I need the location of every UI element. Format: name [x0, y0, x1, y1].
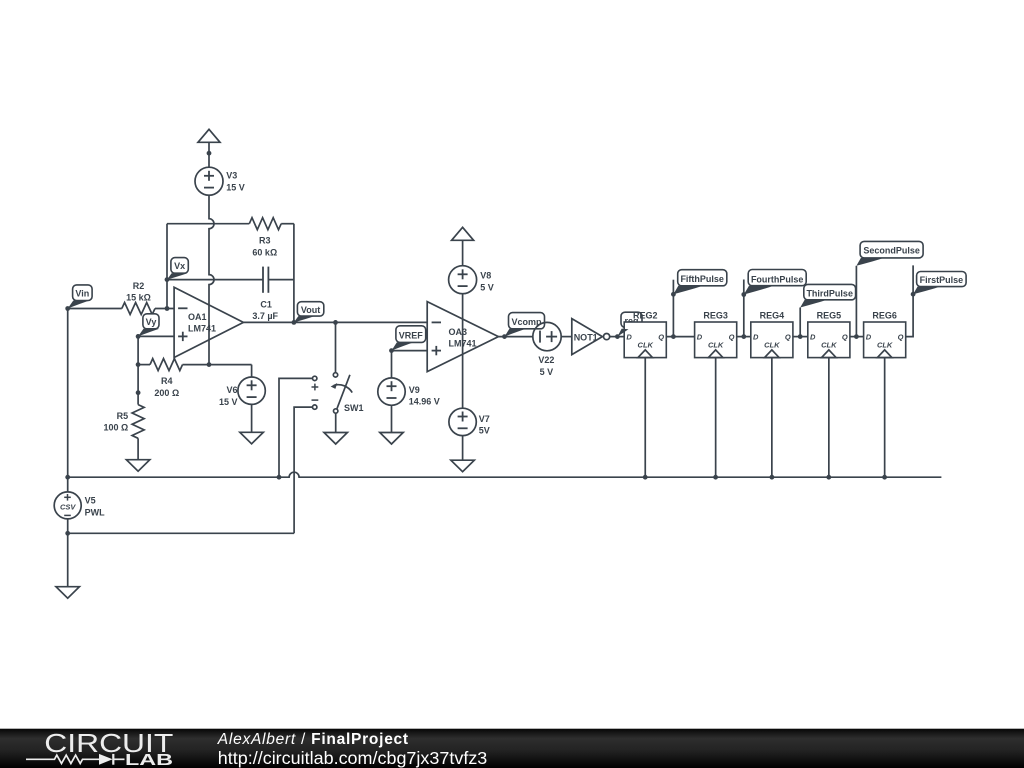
svg-text:R3: R3: [259, 236, 271, 246]
capacitor C1: [263, 267, 268, 293]
node dot VREF: [389, 348, 394, 353]
svg-text:REG5: REG5: [817, 310, 842, 320]
node dot reg flag: [615, 334, 620, 339]
wire right feedback vertical: [293, 224, 295, 323]
wire V3 arrow to source: [208, 142, 210, 167]
svg-text:Vy: Vy: [146, 317, 157, 327]
svg-text:FifthPulse: FifthPulse: [680, 274, 724, 284]
svg-text:5 V: 5 V: [540, 367, 554, 377]
wire Vy down to R4: [137, 336, 139, 404]
node dot Vy: [136, 334, 141, 339]
node dot SW1 plus at rail: [277, 475, 282, 480]
svg-text:SW1: SW1: [344, 403, 364, 413]
label REG6: [872, 310, 897, 320]
node dot SW1 branch: [333, 320, 338, 325]
svg-text:CSV: CSV: [60, 503, 76, 512]
footer title AlexAlbert / FinalProject: [217, 731, 409, 748]
flag FirstPulse: [913, 272, 966, 295]
label R5 100 Ohm: [103, 411, 128, 433]
svg-text:15 V: 15 V: [219, 397, 238, 407]
node dot Vin: [65, 306, 70, 311]
wire R4 left stub: [138, 364, 150, 366]
svg-text:REG3: REG3: [703, 310, 728, 320]
node dot FourthPulse anchor: [741, 292, 746, 297]
node dot FirstPulse anchor: [911, 292, 916, 297]
wire V8 through OA3 to V7: [462, 294, 464, 409]
ground below V5: [56, 587, 79, 599]
resistor R4: [150, 359, 183, 371]
voltage source V7: [449, 408, 476, 435]
label NOT1: [574, 332, 598, 342]
node dot REG4 Q: [798, 334, 803, 339]
svg-text:R4: R4: [161, 376, 173, 386]
flag FifthPulse: [673, 270, 726, 295]
label REG2: [633, 310, 658, 320]
switch SW1 left terminals: [312, 376, 319, 409]
D flip-flop REG3: [695, 322, 737, 358]
node dot FifthPulse anchor: [671, 292, 676, 297]
svg-text:V9: V9: [409, 385, 420, 395]
wire V6 to ground: [251, 404, 253, 432]
resistor R5: [132, 405, 144, 439]
wire riser FifthPulse: [672, 280, 674, 337]
footer url: [218, 748, 488, 768]
svg-text:NOT1: NOT1: [574, 332, 598, 342]
wire REG3 CLK to ground rail: [715, 358, 717, 478]
flag Vin: [68, 285, 92, 309]
voltage source V5 (CSV PWL): [54, 492, 81, 519]
wire NOT1 to REG2: [610, 336, 625, 338]
svg-text:Q: Q: [658, 333, 664, 342]
wire V9 top stub: [391, 351, 393, 378]
svg-text:REG6: REG6: [872, 310, 897, 320]
svg-text:Vx: Vx: [174, 261, 185, 271]
svg-text:Vout: Vout: [301, 305, 320, 315]
op-amp OA1: [174, 287, 243, 357]
footer bar: [0, 729, 1024, 768]
svg-text:R2: R2: [133, 281, 145, 291]
svg-text:Q: Q: [842, 333, 848, 342]
CircuitLab logo: [26, 728, 173, 768]
svg-text:CLK: CLK: [821, 341, 837, 350]
svg-text:ThirdPulse: ThirdPulse: [806, 289, 853, 299]
wire REG4 CLK to ground rail: [771, 358, 773, 478]
power symbol at V8: [452, 227, 474, 240]
label V9 14.96 V: [409, 385, 440, 407]
node dot Vcomp: [502, 334, 507, 339]
flag SecondPulse: [856, 241, 923, 265]
tail of reg flag: [617, 329, 628, 337]
wire REG6 Q riser to FirstPulse: [906, 265, 913, 336]
ground rail: [68, 472, 942, 477]
resistor R3: [249, 218, 281, 230]
flag FourthPulse: [744, 270, 806, 295]
svg-text:REG4: REG4: [760, 310, 785, 320]
svg-text:V7: V7: [479, 414, 490, 424]
svg-text:OA3: OA3: [449, 327, 468, 337]
svg-text:LAB: LAB: [125, 752, 173, 768]
wire C1 left segment: [167, 279, 263, 281]
node dot V5 minus wire: [65, 531, 70, 536]
svg-text:V3: V3: [226, 171, 237, 181]
wire Vin to R2: [68, 308, 122, 310]
node dot REG2 Q: [671, 334, 676, 339]
D flip-flop REG5: [808, 322, 850, 358]
node dot at OA1 inverting input: [165, 306, 170, 311]
svg-text:LM741: LM741: [188, 323, 216, 333]
node dot REG3 Q: [741, 334, 746, 339]
node dot below V3 power arrow: [207, 151, 212, 156]
wire feedback rail to R3: [167, 223, 249, 225]
D flip-flop REG6: [864, 322, 906, 358]
D flip-flop REG4: [751, 322, 793, 358]
flag Vcomp: [505, 313, 545, 337]
wire REG5 CLK to ground rail: [828, 358, 830, 478]
svg-text:D: D: [866, 333, 872, 342]
ground below V7: [451, 460, 474, 472]
ground below V9: [380, 433, 403, 445]
node dot REG2 clk at rail: [643, 475, 648, 480]
node dot rail left corner: [65, 475, 70, 480]
label OA3 LM741: [449, 327, 477, 349]
flag reg (hidden behind REG2): [621, 312, 642, 327]
wire R2 to OA1 inverting input: [155, 308, 174, 310]
svg-text:V5: V5: [85, 495, 96, 505]
label C1 3.7 uF: [252, 299, 278, 321]
svg-text:60 kΩ: 60 kΩ: [252, 248, 277, 258]
svg-text:REG2: REG2: [633, 310, 658, 320]
node dot REG6 clk at rail: [882, 475, 887, 480]
svg-text:OA1: OA1: [188, 312, 207, 322]
wire V5 to ground: [67, 519, 69, 587]
wire REG4 Q to REG5 D: [793, 336, 808, 338]
svg-text:FourthPulse: FourthPulse: [751, 275, 804, 285]
label R2 15 kOhm: [126, 281, 151, 303]
label REG4: [760, 310, 785, 320]
svg-text:100 Ω: 100 Ω: [103, 422, 128, 432]
node dot Vx junction: [165, 277, 170, 282]
label V8 5 V: [480, 271, 494, 293]
node dot Vout: [292, 320, 297, 325]
op-amp OA3: [427, 302, 498, 372]
label V22 5 V: [538, 355, 554, 377]
node dot REG3 clk at rail: [713, 475, 718, 480]
wire Vy to OA1 non-inverting input: [138, 335, 174, 337]
node dot REG5 Q: [854, 334, 859, 339]
flag Vx: [167, 258, 188, 280]
wire OA3 output to V22: [498, 336, 532, 338]
flag Vy: [138, 314, 159, 337]
node dot REG5 clk at rail: [826, 475, 831, 480]
wire REG2 Q to REG3 D: [666, 336, 694, 338]
wire R4 to V6: [183, 364, 252, 366]
svg-text:Q: Q: [898, 333, 904, 342]
wire riser SecondPulse: [855, 266, 857, 337]
svg-text:CLK: CLK: [708, 341, 724, 350]
resistor R2: [122, 303, 155, 315]
svg-text:Q: Q: [785, 333, 791, 342]
D flip-flop REG2: [624, 322, 666, 358]
voltage source V6: [238, 377, 265, 404]
wire left feedback vertical: [166, 224, 168, 309]
wire V8 arrow to source: [462, 240, 464, 265]
svg-text:D: D: [810, 333, 816, 342]
svg-text:D: D: [753, 333, 759, 342]
wire C1 right segment: [268, 279, 294, 281]
voltage source V8: [449, 266, 477, 294]
wire REG3 Q to REG4 D: [737, 336, 751, 338]
wire REG6 CLK to ground rail: [884, 358, 886, 478]
label R3 60 kOhm: [252, 236, 277, 258]
wire SW1 minus terminal to V5: [294, 407, 312, 533]
node dot R4 left: [136, 362, 141, 367]
ground below V6: [240, 432, 263, 444]
svg-text:15 V: 15 V: [226, 183, 245, 193]
svg-text:3.7 µF: 3.7 µF: [252, 311, 278, 321]
svg-text:15 kΩ: 15 kΩ: [126, 293, 151, 303]
power symbol +15V at V3: [198, 129, 220, 142]
wire V5 minus to SW1: [68, 532, 294, 534]
svg-text:SecondPulse: SecondPulse: [863, 246, 920, 256]
svg-text:5V: 5V: [479, 426, 490, 436]
svg-text:Vin: Vin: [75, 288, 89, 298]
svg-text:VREF: VREF: [399, 330, 424, 340]
label V5 PWL: [85, 495, 105, 517]
voltage source V22: [533, 322, 561, 350]
wire down to SW1: [335, 322, 337, 372]
node dot REG4 clk at rail: [770, 475, 775, 480]
flag ThirdPulse: [800, 284, 855, 307]
svg-text:14.96 V: 14.96 V: [409, 397, 440, 407]
svg-text:PWL: PWL: [85, 508, 105, 518]
svg-text:LM741: LM741: [449, 339, 477, 349]
node dot above R5: [136, 390, 141, 395]
label V6 15 V: [219, 385, 238, 407]
label V7 5V: [479, 414, 490, 436]
svg-text:http://circuitlab.com/cbg7jx37: http://circuitlab.com/cbg7jx37tvfz3: [218, 748, 488, 768]
svg-text:200 Ω: 200 Ω: [154, 388, 179, 398]
svg-text:V8: V8: [480, 271, 491, 281]
wire V6 top stub: [251, 365, 253, 377]
wire REG2 CLK to ground rail: [644, 358, 646, 478]
svg-text:FirstPulse: FirstPulse: [920, 275, 964, 285]
label REG5: [817, 310, 842, 320]
svg-text:5 V: 5 V: [480, 282, 494, 292]
svg-text:C1: C1: [260, 299, 272, 309]
svg-text:CLK: CLK: [638, 341, 654, 350]
wire V3 down through OA1 with hops: [209, 195, 214, 364]
wire R3 to right corner: [281, 223, 294, 225]
switch SW1 contacts: [331, 373, 353, 414]
label REG3: [703, 310, 728, 320]
svg-text:CLK: CLK: [764, 341, 780, 350]
wire VREF to OA3 non-inverting input: [392, 350, 428, 352]
wire V22 to NOT1: [561, 336, 572, 338]
voltage source V3: [195, 167, 223, 195]
svg-text:R5: R5: [117, 411, 129, 421]
voltage source V9: [378, 378, 405, 405]
svg-text:D: D: [626, 333, 632, 342]
flag VREF: [392, 326, 426, 351]
wire Vin down to ground rail: [67, 309, 69, 492]
label V3 15 V: [226, 171, 245, 193]
ground below R5: [126, 460, 149, 472]
inverter NOT1: [572, 319, 610, 355]
label SW1: [344, 403, 364, 413]
wire REG5 Q to REG6 D: [850, 336, 864, 338]
wire R5 to ground: [137, 438, 139, 459]
wire OA1 output to OA3 input: [243, 321, 427, 323]
svg-text:AlexAlbert / FinalProject: AlexAlbert / FinalProject: [217, 731, 409, 748]
svg-text:CLK: CLK: [877, 341, 893, 350]
wire V7 to ground: [462, 436, 464, 461]
label R4 200 Ohm: [154, 376, 179, 398]
wire SW1 to ground: [335, 413, 337, 432]
wire riser FourthPulse: [743, 280, 745, 337]
wire SW1 plus terminal to ground rail: [279, 378, 313, 477]
svg-text:D: D: [697, 333, 703, 342]
label OA1 LM741: [188, 312, 216, 333]
svg-text:Q: Q: [729, 333, 735, 342]
ground below SW1: [324, 433, 347, 445]
wire V9 to ground: [391, 405, 393, 432]
svg-text:V6: V6: [226, 385, 237, 395]
node dot R4 right at V3 line: [207, 362, 212, 367]
wire riser ThirdPulse: [799, 308, 801, 337]
svg-text:V22: V22: [538, 355, 554, 365]
flag Vout: [294, 302, 324, 323]
